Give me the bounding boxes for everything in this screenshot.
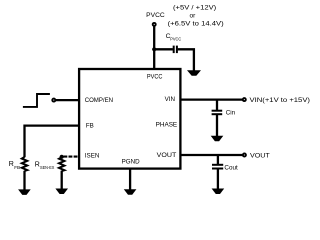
svg-text:COMP/EN: COMP/EN [85, 97, 113, 104]
capacitor CPVCC [174, 46, 177, 54]
node PVCC input terminal [153, 23, 156, 26]
resistor RFB [22, 157, 27, 171]
wire COMP/EN terminal to pin [56, 99, 79, 101]
svg-text:FB: FB [14, 165, 20, 171]
wire Cout to ground [217, 169, 219, 189]
wire RFB to ground [23, 171, 25, 190]
ground (PGND) [124, 189, 137, 195]
capacitor Cin [212, 111, 223, 115]
svg-text:VOUT: VOUT [250, 152, 270, 159]
wire VOUT pin to terminal [181, 154, 243, 156]
svg-text:FB: FB [86, 122, 94, 129]
CPVCC value label [166, 33, 182, 43]
node COMP/EN terminal [52, 99, 55, 102]
ground (RFB) [18, 189, 31, 195]
wire VOUT to capacitor Cout [217, 155, 219, 164]
svg-text:(+5V / +12V): (+5V / +12V) [173, 5, 216, 12]
svg-text:Cin: Cin [226, 110, 236, 117]
wire FB pin to resistor RFB [25, 126, 79, 158]
wire junction to capacitor CPVCC [154, 48, 173, 50]
svg-text:PVCC: PVCC [147, 73, 163, 80]
svg-text:Cout: Cout [224, 165, 238, 172]
wire RSEN-EX to ground [61, 171, 63, 189]
ground (Cin) [211, 136, 224, 142]
IC U1 [79, 69, 180, 169]
svg-text:VIN(+1V to +15V): VIN(+1V to +15V) [250, 97, 311, 104]
dashed wire ISEN pin [63, 156, 78, 158]
svg-text:or: or [190, 13, 197, 20]
resistor RSEN-EX [59, 157, 64, 171]
wire capacitor to ground corner [178, 49, 194, 70]
svg-text:(+6.5V to 14.4V): (+6.5V to 14.4V) [168, 21, 224, 28]
svg-text:VOUT: VOUT [157, 152, 177, 159]
ground (Cout) [212, 189, 225, 195]
svg-text:SEN-EX: SEN-EX [40, 165, 55, 171]
svg-text:R: R [9, 161, 14, 168]
svg-text:PHASE: PHASE [156, 122, 178, 129]
wire VIN pin to terminal [181, 98, 243, 100]
node ISEN junction dot [60, 155, 64, 159]
wire PVCC terminal down to IC pin [153, 26, 155, 68]
enable step signal symbol [23, 94, 50, 107]
wire Cin to ground [216, 115, 218, 136]
wire PGND pin to ground [129, 169, 131, 190]
RFB label [9, 161, 20, 171]
capacitor Cout [212, 165, 223, 169]
ground (CPVCC) [187, 70, 201, 76]
svg-text:PVCC: PVCC [146, 12, 165, 19]
node VOUT terminal [243, 154, 246, 157]
svg-text:PGND: PGND [122, 158, 141, 165]
wire VIN to capacitor Cin [216, 100, 218, 110]
junction dot on PVCC net [152, 47, 156, 51]
svg-text:ISEN: ISEN [85, 152, 100, 159]
RSEN-EX label [35, 162, 55, 171]
svg-text:VIN: VIN [165, 96, 175, 103]
voltage note [168, 5, 224, 28]
node VIN terminal [243, 98, 246, 101]
ground (RSEN-EX) [55, 189, 68, 195]
svg-text:PVCC: PVCC [170, 36, 181, 42]
